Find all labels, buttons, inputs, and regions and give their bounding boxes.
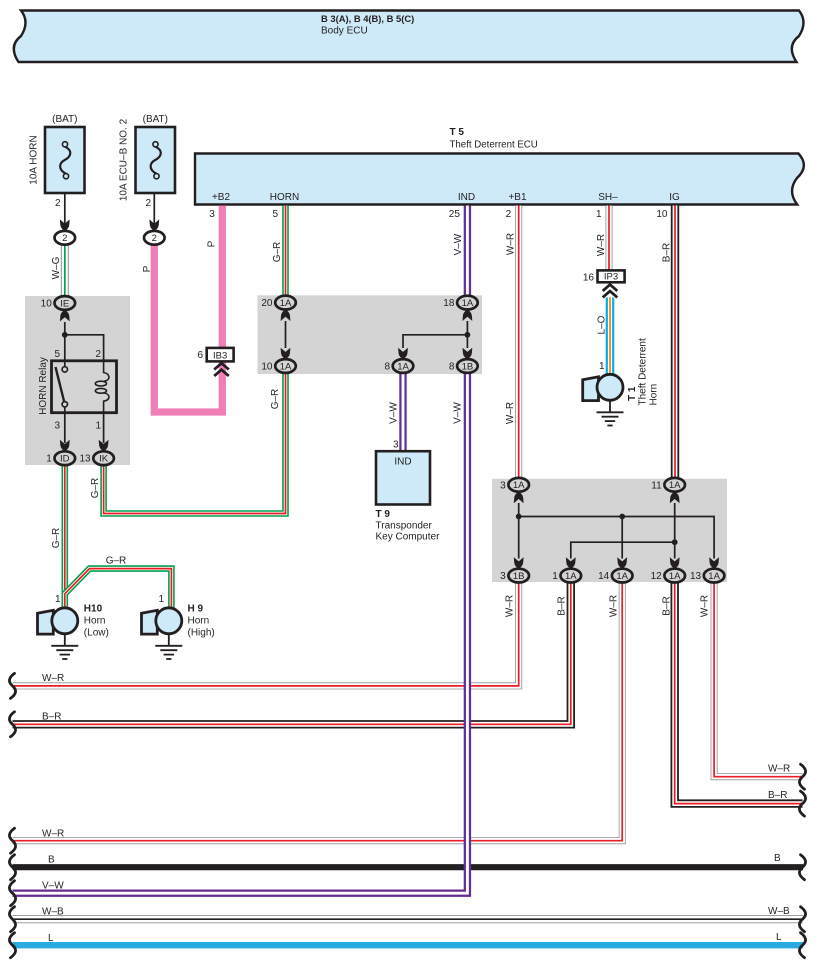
connector 1A pin 13 [690,569,724,583]
relay switch contacts [56,367,68,407]
svg-text:G–R: G–R [51,528,62,549]
svg-text:2: 2 [55,198,61,209]
svg-text:Horn: Horn [649,384,660,406]
svg-text:13: 13 [690,571,702,582]
svg-text:V–W: V–W [453,233,464,255]
svg-text:2: 2 [145,198,151,209]
relay wiring node [65,322,104,367]
svg-text:8: 8 [449,362,455,373]
connector 1A pin 3 [500,478,529,492]
svg-text:Horn: Horn [84,616,106,627]
svg-text:HORN: HORN [270,192,299,203]
bus break symbol left [9,855,15,880]
wire B-R IG to 11 1A [671,206,679,478]
svg-text:Key Computer: Key Computer [376,532,441,543]
svg-text:G–R: G–R [106,556,127,567]
svg-text:1A: 1A [616,571,628,582]
mid junction shield box [258,295,483,374]
relay HORN Relay [38,349,117,432]
svg-text:20: 20 [261,298,273,309]
svg-text:V–W: V–W [42,881,64,892]
mid box wire 18 1A to 8 1B and 8 1A [403,321,467,348]
wire W-R SH- to IP3 [606,206,613,271]
right box wire from 3 1A down to 3 1B [518,503,520,559]
svg-text:L: L [48,933,54,944]
svg-text:P: P [207,240,218,247]
svg-text:+B2: +B2 [212,192,231,203]
svg-text:3: 3 [500,571,506,582]
wire G-R from ID to horn H10 [62,465,69,607]
svg-text:IG: IG [669,192,680,203]
svg-text:2: 2 [152,233,157,244]
svg-text:G–R: G–R [272,242,283,263]
svg-text:IP3: IP3 [604,272,618,283]
wire G-R from 10 1A to IK [104,373,286,514]
svg-text:2: 2 [506,209,512,220]
bus break symbol left [9,907,15,932]
wire relay pin1 to IK [103,413,105,443]
bus wire B-R right (from connector 12 1A) [675,582,803,803]
connector 1A pin 8 [384,359,413,373]
component T9 Transponder Key Computer [376,440,441,543]
svg-text:2: 2 [95,349,101,360]
svg-text:1: 1 [55,594,61,605]
svg-text:(Low): (Low) [84,628,109,639]
svg-text:1A: 1A [669,480,681,491]
right box wire from 11 1A down to 12 1A [674,503,676,559]
svg-text:Theft Deterrent: Theft Deterrent [638,338,649,405]
bus break symbol right [799,933,805,958]
T5 pin numbers [209,209,668,220]
svg-text:1A: 1A [513,480,525,491]
wire V-W from connector 8 1B to bus [13,373,468,893]
svg-text:1A: 1A [462,298,474,309]
H9 ground [155,634,182,659]
bus break symbol left [9,933,15,958]
svg-text:B: B [774,853,781,864]
svg-text:W–R: W–R [768,764,790,775]
wire fuse2 to connector 2 [153,194,155,232]
relay coil [95,361,109,413]
bus wire B ground bus [13,864,804,870]
svg-text:1A: 1A [397,361,409,372]
fuse 10A ECU-B NO. 2 [119,114,176,209]
junction connector IB3 [197,348,233,362]
svg-text:IB3: IB3 [213,351,227,362]
svg-text:1: 1 [158,594,164,605]
junction connector IP3 [583,270,625,283]
ECU T5 Theft Deterrent ECU [195,127,804,205]
component H10 Horn Low [38,608,78,634]
svg-text:HORN Relay: HORN Relay [38,357,49,415]
svg-text:ID: ID [60,454,70,465]
svg-text:W–R: W–R [700,595,711,617]
relay shield box [25,296,130,465]
wire P from +B2 to IB3 [219,206,226,348]
wire G-R HORN pin to 20 1A [282,206,289,296]
svg-text:B–R: B–R [662,596,673,615]
connector IK pin 13 [79,451,113,465]
bus wire W-R right (from connector 13 1A) [714,582,802,776]
wire L-O IP3 to T1 horn [606,298,615,376]
svg-text:G–R: G–R [270,389,281,410]
svg-text:Body ECU: Body ECU [321,26,368,37]
bus break symbol left [9,828,15,853]
svg-text:10A ECU–B NO. 2: 10A ECU–B NO. 2 [119,118,130,201]
svg-text:W–R: W–R [596,234,607,256]
svg-text:1: 1 [552,571,558,582]
svg-text:(BAT): (BAT) [143,114,168,125]
svg-text:V–W: V–W [388,402,399,424]
svg-text:W–B: W–B [42,907,64,918]
svg-text:1A: 1A [669,571,681,582]
svg-text:1A: 1A [565,571,577,582]
svg-text:W–R: W–R [506,233,517,255]
component H9 Horn High [142,608,182,634]
svg-text:1: 1 [596,209,602,220]
svg-text:1: 1 [599,361,605,372]
svg-text:11: 11 [651,480,662,491]
svg-text:W–R: W–R [609,595,620,617]
svg-text:25: 25 [449,209,461,220]
svg-text:IND: IND [458,192,475,203]
svg-text:Theft Deterrent ECU: Theft Deterrent ECU [450,140,538,151]
right junction shield box [492,479,727,582]
connector 2 under fuse2 [144,231,165,245]
svg-text:(BAT): (BAT) [52,114,77,125]
svg-text:3: 3 [393,440,399,451]
svg-text:3: 3 [209,209,215,220]
svg-text:12: 12 [651,571,663,582]
svg-text:5: 5 [272,209,278,220]
svg-text:H10: H10 [84,604,103,615]
svg-text:IE: IE [60,298,69,309]
connector 1A pin 10 [261,359,295,373]
wire G-R branch to horn H9 [65,569,172,608]
svg-text:T 9: T 9 [376,509,391,520]
bus break symbol left [9,881,15,906]
svg-text:W–R: W–R [505,595,516,617]
svg-text:1A: 1A [708,571,720,582]
wire fuse1 to connector 2 [64,194,66,232]
svg-text:3: 3 [500,480,506,491]
svg-text:H 9: H 9 [188,604,204,615]
svg-text:SH–: SH– [598,192,618,203]
connector 1B pin 8 [449,359,478,373]
svg-text:B–R: B–R [662,243,673,262]
wire V-W IND pin to 18 1A [464,206,471,296]
wire relay pin3 to ID [64,407,66,443]
connector 1B pin 3 [500,569,529,583]
svg-text:G–R: G–R [90,478,101,499]
bus wire W-R left lower (from connector 14 1A) [13,582,623,840]
bus break symbol left [9,673,15,698]
wire V-W from 8 1A to T9 [399,373,406,452]
svg-text:1A: 1A [280,298,292,309]
svg-text:W–R: W–R [42,829,64,840]
component T1 Theft Deterrent Horn [583,374,623,400]
svg-text:W–G: W–G [51,256,62,279]
svg-text:P: P [142,265,153,272]
bus wire W-B [13,915,804,923]
fuse 10A HORN [29,114,85,209]
connector 1A pin 12 [651,569,685,583]
svg-text:B–R: B–R [768,790,787,801]
connector 1A pin 20 [261,296,295,310]
bus wire L [13,942,804,948]
svg-text:T 1: T 1 [627,386,638,401]
bus break symbol right [799,764,805,789]
bus wire B-R left (from connector 1 1A) [13,582,571,724]
bus wire W-R left (from connector 3 1B) [13,582,519,686]
mid box wire 20 1A to 10 1A [285,321,287,348]
svg-text:B–R: B–R [557,596,568,615]
svg-text:+B1: +B1 [508,192,527,203]
connector 1A pin 1 [552,569,581,583]
T5 pin names [212,192,680,203]
T1 labels [599,338,660,405]
IP3 chevron [603,285,618,298]
H9 labels [158,594,214,639]
svg-text:1B: 1B [513,571,525,582]
connector ID pin 1 [46,451,75,465]
bus break symbol left [9,712,15,737]
right box horizontal to 13 1A and 14 1A [519,517,714,559]
svg-text:(High): (High) [188,628,215,639]
connector 1A pin 18 [443,296,477,310]
svg-text:Horn: Horn [188,616,210,627]
connector 2 under fuse1 [55,231,76,245]
svg-text:L–O: L–O [597,315,608,334]
svg-text:14: 14 [598,571,610,582]
IB3 chevron [214,363,229,376]
svg-text:2: 2 [62,233,67,244]
svg-text:B–R: B–R [42,712,61,723]
svg-text:10: 10 [656,209,668,220]
wire W-G fuse to relay [61,245,69,296]
svg-text:1A: 1A [280,361,292,372]
T1 ground [597,400,624,425]
banner Body ECU B3/B4/B5 [14,11,804,63]
svg-text:L: L [776,932,782,943]
svg-text:V–W: V–W [453,402,464,424]
svg-text:1: 1 [95,421,101,432]
svg-text:5: 5 [54,349,60,360]
connector 1A pin 14 [598,569,632,583]
svg-text:10A HORN: 10A HORN [29,135,40,184]
svg-text:W–B: W–B [768,906,790,917]
svg-text:1: 1 [46,454,52,465]
svg-text:16: 16 [583,273,595,284]
svg-text:B: B [48,855,55,866]
right box horizontal to 1 1A [571,542,675,558]
svg-text:Transponder: Transponder [376,521,433,532]
svg-text:1B: 1B [462,361,474,372]
svg-text:W–R: W–R [505,402,516,424]
bus break symbol right [799,907,805,932]
svg-text:8: 8 [384,362,390,373]
svg-text:13: 13 [79,454,91,465]
bus break symbol right [799,855,805,880]
svg-text:B 3(A), B 4(B), B 5(C): B 3(A), B 4(B), B 5(C) [321,13,414,24]
svg-text:10: 10 [261,362,273,373]
connector 1A pin 11 [651,478,685,492]
H10 ground [51,634,78,659]
wire W-R +B1 to 3 1A [515,206,522,478]
H10 labels [55,594,109,639]
svg-text:3: 3 [54,421,60,432]
bus break symbol right [799,791,805,816]
wire P from fuse 2 to IB3 chevron [154,245,222,412]
svg-text:IK: IK [99,454,109,465]
svg-text:IND: IND [394,457,411,468]
svg-text:W–R: W–R [42,673,64,684]
svg-text:6: 6 [197,350,203,361]
connector IE pin 10 [41,296,75,310]
svg-text:T 5: T 5 [450,127,465,138]
svg-text:10: 10 [41,299,53,310]
svg-text:18: 18 [443,298,455,309]
